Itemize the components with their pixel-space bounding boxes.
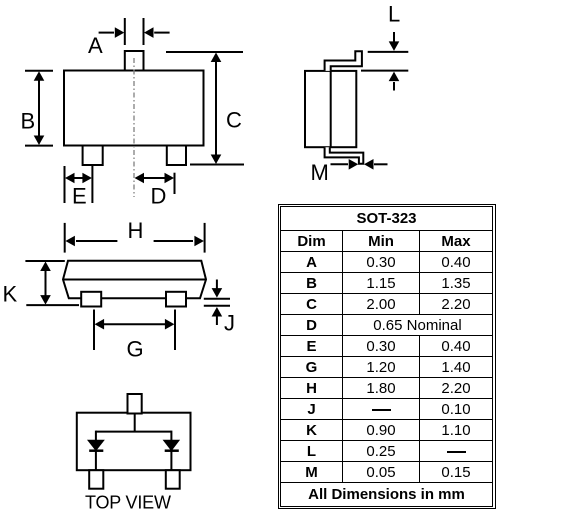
wire from pin 3 to common node — [134, 413, 136, 432]
dimension J gap lines — [204, 299, 230, 306]
profile view left lead — [81, 292, 101, 307]
front view top lead (pin 3) — [125, 51, 144, 71]
dimension C extension lines — [166, 52, 244, 165]
profile view package body — [63, 261, 206, 299]
dimension H label — [128, 218, 144, 243]
side view bottom lead — [325, 147, 364, 164]
dimension B extension lines — [25, 71, 53, 146]
svg-text:E: E — [72, 184, 87, 209]
top view caption — [85, 493, 171, 513]
front view centerline — [133, 58, 135, 197]
svg-text:M: M — [311, 160, 329, 185]
dimension H extension ticks — [65, 223, 205, 253]
dimension L arrows — [389, 32, 400, 91]
dimension K extension lines — [25, 261, 79, 305]
side view package body — [305, 71, 356, 147]
front view package body — [64, 71, 204, 146]
svg-text:C: C — [226, 108, 242, 133]
svg-text:G: G — [127, 337, 144, 362]
dimension C arrow — [211, 53, 222, 165]
dimension G label — [127, 337, 144, 362]
dimension L extension lines — [361, 52, 408, 71]
dimension K label — [3, 282, 18, 307]
front view bottom-right lead (pin 2) — [167, 146, 186, 166]
wire from diode D1 cathode to pin 1 — [95, 451, 97, 470]
dimension E arrows — [65, 173, 92, 184]
wire to diode D2 anode — [170, 431, 172, 441]
dimension C label — [226, 108, 242, 133]
profile view mold parting line — [63, 279, 206, 281]
dimension J arrows — [212, 280, 223, 326]
dimension G extension ticks — [94, 310, 175, 351]
svg-text:J: J — [224, 311, 235, 336]
top view package body — [77, 413, 191, 471]
dimension G arrows — [95, 319, 175, 330]
dimensions table — [278, 204, 496, 509]
dimension M arrows — [331, 159, 388, 170]
dimension B label — [21, 109, 36, 134]
profile view right lead — [166, 292, 186, 307]
svg-text:L: L — [388, 2, 400, 27]
dimension D tick — [174, 173, 176, 194]
wire to diode D1 anode — [95, 431, 97, 441]
diode D1 — [88, 440, 104, 451]
side view top lead — [325, 51, 362, 71]
dimension H arrows — [65, 236, 204, 247]
svg-text:H: H — [128, 218, 144, 243]
svg-text:B: B — [21, 109, 36, 134]
dimension M label — [311, 160, 329, 185]
dimension E label — [72, 184, 87, 209]
dimension A extension ticks — [125, 18, 144, 45]
wire from diode D2 cathode to pin 2 — [170, 451, 172, 470]
dimension K arrow — [40, 262, 51, 305]
dimension L label — [388, 2, 400, 27]
diode D2 — [164, 440, 180, 451]
wire common anode bus — [96, 431, 171, 433]
top view top lead (pin 3) — [128, 394, 142, 414]
front view bottom-left lead (pin 1) — [83, 146, 103, 166]
top view bottom-left lead (pin 1) — [89, 470, 103, 489]
svg-text:D: D — [151, 184, 167, 209]
side view body divider — [330, 71, 332, 147]
dimension E extension ticks — [65, 166, 93, 203]
dimension A label — [88, 33, 103, 58]
svg-text:A: A — [88, 33, 103, 58]
top view bottom-right lead (pin 2) — [166, 470, 180, 489]
dimension D label — [151, 184, 167, 209]
dimension J label — [224, 311, 235, 336]
dimension B arrow — [34, 71, 45, 145]
dimension A arrows — [99, 27, 170, 38]
svg-text:TOP VIEW: TOP VIEW — [85, 493, 171, 513]
dimension D arrows — [135, 173, 175, 184]
svg-text:K: K — [3, 282, 18, 307]
